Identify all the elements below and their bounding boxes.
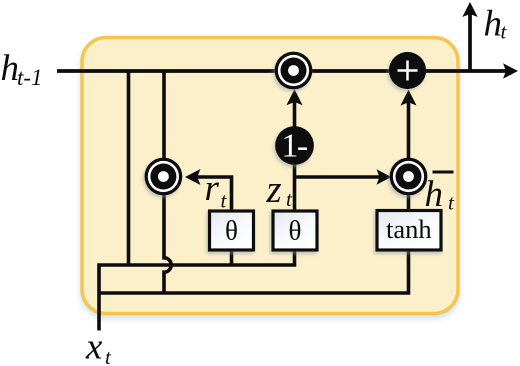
multiply node (reset, left) bbox=[145, 158, 183, 196]
svg-text:1-: 1- bbox=[281, 128, 308, 165]
tanh box (candidate activation) bbox=[377, 211, 441, 251]
svg-text:r: r bbox=[205, 168, 220, 209]
wire: vertical drop 2 through reset multiply, with hop over x_t line bbox=[164, 71, 171, 293]
wire: x_t lower branch to tanh box bbox=[99, 250, 409, 293]
wire: h_{t-1} main horizontal line with output arrowhead bbox=[57, 63, 518, 78]
wire: z_t arrow right into candidate multiply node bbox=[295, 169, 392, 184]
svg-text:t: t bbox=[105, 345, 112, 366]
wire: h_t output branch going up bbox=[462, 2, 477, 72]
label h̄_t (candidate state with overbar) bbox=[425, 172, 456, 215]
wire: candidate vertical with arrow up into add node bbox=[400, 90, 416, 211]
wire: x_t input rising and running right to update gate bbox=[99, 250, 295, 331]
multiply node (candidate, right) bbox=[390, 158, 428, 196]
svg-text:θ: θ bbox=[225, 216, 238, 246]
label r_t bbox=[205, 168, 228, 213]
svg-text:t-1: t-1 bbox=[17, 65, 43, 90]
svg-text:x: x bbox=[85, 327, 103, 366]
svg-text:h: h bbox=[425, 174, 444, 215]
label h_{t-1} bbox=[1, 48, 43, 90]
label z_t bbox=[266, 168, 294, 211]
wire: vertical drop 1 from main line bbox=[127, 71, 131, 265]
label x_t bbox=[85, 327, 112, 366]
wire: r_t arrow into reset multiply node bbox=[185, 169, 232, 211]
label h_t bbox=[484, 4, 508, 45]
sigmoid box (update gate) with value label θ bbox=[273, 211, 317, 250]
svg-text:tanh: tanh bbox=[386, 214, 432, 244]
add node + bbox=[389, 52, 426, 89]
svg-text:z: z bbox=[266, 168, 282, 211]
sigmoid box (reset gate) with value label θ bbox=[210, 211, 254, 250]
wire: z_t vertical with arrow up into top multiply node bbox=[286, 89, 302, 211]
svg-text:t: t bbox=[501, 20, 508, 44]
multiply node (top, forget) bbox=[275, 52, 313, 90]
GRU cell body bbox=[82, 38, 458, 314]
svg-text:h: h bbox=[484, 4, 503, 45]
node 1- (one minus z) bbox=[275, 126, 314, 165]
wire: reset gate box down to x_t line bbox=[230, 250, 234, 265]
svg-text:θ: θ bbox=[289, 216, 302, 246]
